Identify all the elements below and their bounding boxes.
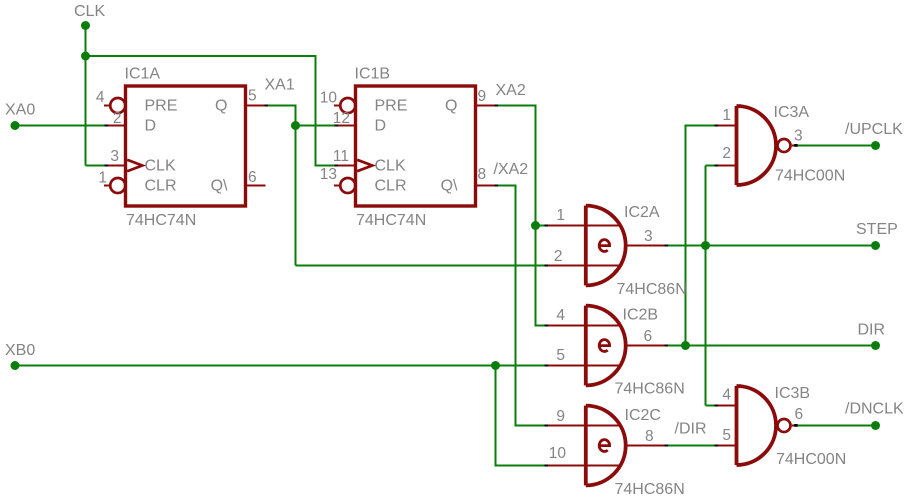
pin IC2A 3 output [628, 245, 666, 247]
svg-text:10: 10 [549, 445, 567, 462]
pin IC3B 4 [716, 405, 737, 407]
pin IC3A 1 [716, 125, 737, 127]
xor gate IC2A [586, 206, 626, 286]
svg-text:11: 11 [333, 148, 349, 165]
node XB0 terminal dot [11, 361, 20, 370]
pin IC1A 1 CLR [104, 178, 125, 193]
svg-text:Q\: Q\ [211, 178, 228, 195]
wire STEP branch to IC3A pin2 [706, 165, 716, 167]
connection dots [105, 105, 798, 467]
svg-text:4: 4 [722, 387, 731, 404]
node CLK terminal dot [81, 21, 90, 30]
wire DIR net vertical branch to IC3A pin1 [686, 126, 716, 346]
node /DNCLK terminal dot [871, 421, 880, 430]
pin IC1B 11 CLK [336, 165, 356, 167]
node STEP terminal dot [871, 241, 880, 250]
svg-text:74HC86N: 74HC86N [615, 481, 685, 498]
node CLK junction [81, 52, 90, 61]
IC2B e symbol [599, 340, 609, 352]
svg-text:IC3A: IC3A [774, 104, 810, 121]
wire XA1 net from IC1A Q [266, 106, 296, 266]
svg-text:IC1B: IC1B [355, 66, 391, 83]
svg-text:PRE: PRE [375, 98, 408, 115]
pin IC1B 12 D [336, 125, 356, 127]
svg-text:IC3B: IC3B [775, 385, 811, 402]
pin IC3A 3 output [792, 145, 796, 147]
IC2A e symbol [599, 240, 609, 252]
svg-text:CLK: CLK [74, 3, 105, 20]
node /UPCLK terminal dot [871, 141, 880, 150]
svg-text:2: 2 [113, 110, 122, 127]
svg-text:/XA2: /XA2 [494, 161, 529, 178]
svg-text:IC1A: IC1A [125, 66, 161, 83]
nand gate IC3A [737, 106, 791, 185]
svg-text:74HC86N: 74HC86N [615, 381, 685, 398]
svg-text:XA0: XA0 [5, 102, 35, 119]
svg-text:Q: Q [445, 98, 457, 115]
pin IC1B 8 Q\ [476, 185, 496, 187]
svg-text:9: 9 [556, 408, 565, 425]
pin IC1A 2 D [106, 125, 126, 127]
svg-text:1: 1 [98, 170, 107, 187]
svg-text:13: 13 [320, 166, 337, 183]
wire XB0 net [15, 365, 546, 367]
pin IC2C 9 [546, 425, 622, 427]
xor gate IC2C [586, 406, 626, 486]
svg-text:XB0: XB0 [5, 342, 35, 359]
svg-text:5: 5 [248, 88, 257, 105]
wire XA2 net from IC1B Q [496, 106, 546, 326]
svg-text:74HC74N: 74HC74N [356, 212, 426, 229]
wire XA0 net [15, 125, 105, 127]
svg-text:74HC86N: 74HC86N [617, 281, 687, 298]
svg-text:IC2C: IC2C [625, 407, 661, 424]
svg-text:STEP: STEP [856, 221, 898, 238]
svg-text:6: 6 [795, 406, 804, 423]
flip-flop IC1A box [126, 86, 246, 206]
svg-text:5: 5 [556, 347, 565, 364]
pin IC3B 6 output [792, 425, 796, 427]
IC3B output bubble [778, 419, 791, 432]
svg-text:9: 9 [478, 88, 487, 105]
svg-text:PRE: PRE [145, 98, 178, 115]
IC1B clock triangle [357, 160, 372, 171]
svg-text:74HC74N: 74HC74N [126, 212, 196, 229]
svg-text:5: 5 [722, 427, 731, 444]
svg-text:XA1: XA1 [265, 77, 295, 94]
pin IC1A 5 Q [246, 105, 266, 107]
wire STEP net vertical branch [705, 166, 707, 406]
pin IC1A 3 CLK [106, 165, 126, 167]
svg-text:CLR: CLR [145, 178, 177, 195]
pin IC3B 5 [716, 445, 737, 447]
IC1A clock triangle [127, 160, 142, 171]
pin IC2A 1 [546, 225, 622, 227]
svg-text:74HC00N: 74HC00N [776, 451, 846, 468]
wire /DNCLK net [796, 425, 876, 427]
svg-text:IC2A: IC2A [624, 204, 660, 221]
pin IC2B 4 [546, 325, 622, 327]
svg-text:4: 4 [96, 89, 105, 106]
svg-text:74HC00N: 74HC00N [775, 168, 845, 185]
svg-text:D: D [145, 118, 157, 135]
wire CLK net horizontal to IC1A pin3 [86, 165, 106, 167]
svg-text:1: 1 [556, 207, 565, 224]
wire STEP net horizontal [666, 245, 876, 247]
pin IC2B 5 [546, 365, 622, 367]
wire DIR net horizontal [666, 345, 876, 347]
pin IC1B 9 Q [476, 105, 496, 107]
wire /XA2 net from IC1B Q\ [496, 186, 546, 426]
svg-text:1: 1 [722, 107, 731, 124]
wire XB0 net branch to IC2C pin10 [496, 366, 546, 466]
node XB0 junction [491, 361, 500, 370]
nand gate IC3B [737, 386, 791, 465]
svg-text:6: 6 [644, 328, 653, 345]
wire CLK net top horizontal [86, 56, 336, 166]
wire XA1 net to IC1B D [296, 125, 336, 127]
pin IC1A 6 Q\ [246, 185, 266, 187]
pin IC1B 13 CLR [334, 178, 355, 193]
svg-text:CLK: CLK [375, 158, 406, 175]
pin IC3A 2 [716, 165, 737, 167]
pin IC2B 6 output [628, 345, 666, 347]
svg-text:3: 3 [794, 128, 803, 145]
pin IC1B 10 PRE [334, 98, 355, 113]
svg-text:3: 3 [644, 228, 653, 245]
IC3A output bubble [778, 139, 791, 152]
node DIR junction [681, 341, 690, 350]
svg-text:8: 8 [478, 166, 487, 183]
node STEP junction [701, 241, 710, 250]
pin IC2C 8 output [628, 445, 666, 447]
svg-text:6: 6 [248, 169, 257, 186]
svg-text:8: 8 [645, 428, 654, 445]
IC2C e symbol [599, 440, 609, 452]
svg-text:Q: Q [215, 98, 227, 115]
wire XA1 net to IC2A pin2 [296, 265, 546, 267]
xor gate IC2B [586, 306, 626, 386]
node DIR terminal dot [871, 341, 880, 350]
wire /UPCLK net [796, 145, 876, 147]
svg-text:CLK: CLK [145, 158, 176, 175]
svg-text:/DNCLK: /DNCLK [845, 401, 904, 418]
flip-flop IC1B box [356, 86, 476, 206]
wire CLK net vertical [85, 26, 87, 166]
wire XA2 net to IC2A pin1 [536, 225, 546, 227]
svg-text:CLR: CLR [375, 178, 407, 195]
pin IC2A 2 [546, 265, 622, 267]
svg-text:XA2: XA2 [496, 82, 526, 99]
svg-text:Q\: Q\ [441, 178, 458, 195]
node XA0 terminal dot [11, 121, 20, 130]
svg-text:2: 2 [722, 145, 731, 162]
svg-text:D: D [375, 118, 387, 135]
wire /DIR net [666, 445, 716, 447]
svg-text:2: 2 [554, 248, 563, 265]
node XA2 junction [531, 221, 540, 230]
pin IC1A 4 PRE [104, 98, 125, 113]
svg-text:/UPCLK: /UPCLK [845, 121, 903, 138]
node XA1 junction [291, 121, 300, 130]
svg-text:/DIR: /DIR [675, 421, 707, 438]
svg-text:DIR: DIR [858, 322, 886, 339]
pin IC2C 10 [546, 465, 622, 467]
svg-text:4: 4 [556, 307, 565, 324]
svg-text:12: 12 [333, 110, 350, 127]
svg-text:IC2B: IC2B [623, 307, 659, 324]
svg-text:3: 3 [110, 148, 119, 165]
svg-text:10: 10 [320, 90, 338, 107]
wire STEP branch to IC3B pin4 [706, 405, 716, 407]
